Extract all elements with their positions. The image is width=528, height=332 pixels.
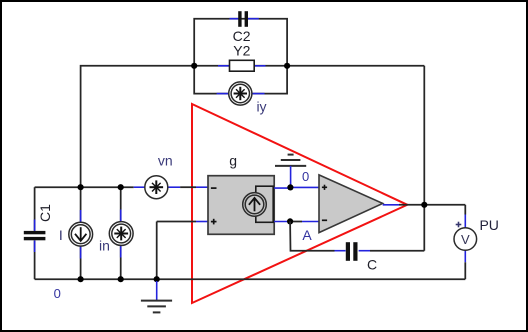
wire: op-amp + input lead — [290, 186, 319, 188]
svg-text:I: I — [59, 227, 63, 243]
wire: PU vertical leads — [464, 205, 466, 215]
junction dot left of Y2 — [191, 63, 197, 69]
wire: blue leads of iy — [217, 93, 229, 95]
wire: right vertical x=424.3 down to C branch — [423, 66, 425, 251]
wire: blue leads of Y2 — [218, 65, 230, 67]
wire: C2 branch top y=18.7 — [194, 19, 287, 66]
wire: op-amp - input lead — [290, 221, 302, 223]
current source in — [109, 222, 133, 246]
svg-text:V: V — [461, 232, 470, 247]
output junction dot — [421, 202, 427, 208]
red amplifier boundary triangle — [192, 104, 407, 303]
node dot 0 — [287, 184, 293, 190]
blue leads of C1 — [34, 220, 36, 231]
svg-text:C2: C2 — [233, 28, 251, 44]
wire: op-amp output — [383, 204, 399, 206]
wire: vertical x=120.7 with source in — [120, 187, 122, 221]
svg-text:0: 0 — [54, 286, 61, 301]
wire: iy branch y=93.6 — [194, 66, 287, 94]
svg-text:C: C — [367, 257, 377, 273]
ground (top, inverted, x=290.6) — [275, 155, 306, 188]
capacitor C — [346, 242, 358, 261]
plus sign — [211, 221, 217, 223]
minus sign — [211, 187, 217, 189]
svg-text:C1: C1 — [37, 204, 53, 222]
capacitor C2 — [238, 11, 248, 27]
wire: bottom rail y=279.2 — [35, 278, 466, 280]
wire: row y=187.2 from C1 corner to g box — [35, 186, 134, 188]
wire: vertical x=156.7 down to bottom rail — [156, 222, 158, 280]
wire: blue leads of vn — [134, 186, 145, 188]
wire: g right pins to node dots — [274, 187, 290, 189]
current source I — [69, 222, 93, 246]
wire: left vertical x=34.6 (C1 branch) — [34, 187, 36, 231]
op-amp U1 — [319, 175, 383, 233]
g box (controlled source) — [208, 176, 274, 235]
wire: blue leads of C2 — [230, 18, 240, 20]
wire: g plus row y=221.5 — [157, 221, 196, 223]
current source iy — [229, 82, 252, 105]
svg-text:PU: PU — [479, 217, 498, 233]
node dot A — [287, 218, 293, 224]
svg-text:in: in — [99, 237, 110, 253]
junction dot right of Y2 — [284, 63, 290, 69]
junction dots bottom rail — [78, 276, 84, 282]
svg-text:Y2: Y2 — [233, 43, 250, 59]
blue leads of C — [335, 250, 346, 252]
resistor Y2 — [230, 60, 255, 71]
svg-text:A: A — [302, 227, 312, 243]
voltmeter PU — [454, 222, 477, 251]
wire: main top net y=65.8 from left corner to right vertical — [81, 66, 425, 187]
wire: vertical x=80.6 with source I — [80, 187, 82, 222]
capacitor C1 — [24, 231, 46, 240]
voltage source vn — [145, 176, 168, 199]
wire: C branch to right vertical — [370, 250, 424, 252]
wire: A node vertical to C branch — [290, 221, 334, 250]
svg-text:0: 0 — [302, 169, 309, 184]
ground (bottom, x=156.7) — [141, 281, 172, 312]
svg-text:iy: iy — [256, 98, 266, 114]
svg-text:vn: vn — [158, 153, 173, 169]
junction dots row y=187.2 — [78, 184, 84, 190]
svg-text:g: g — [229, 153, 237, 169]
